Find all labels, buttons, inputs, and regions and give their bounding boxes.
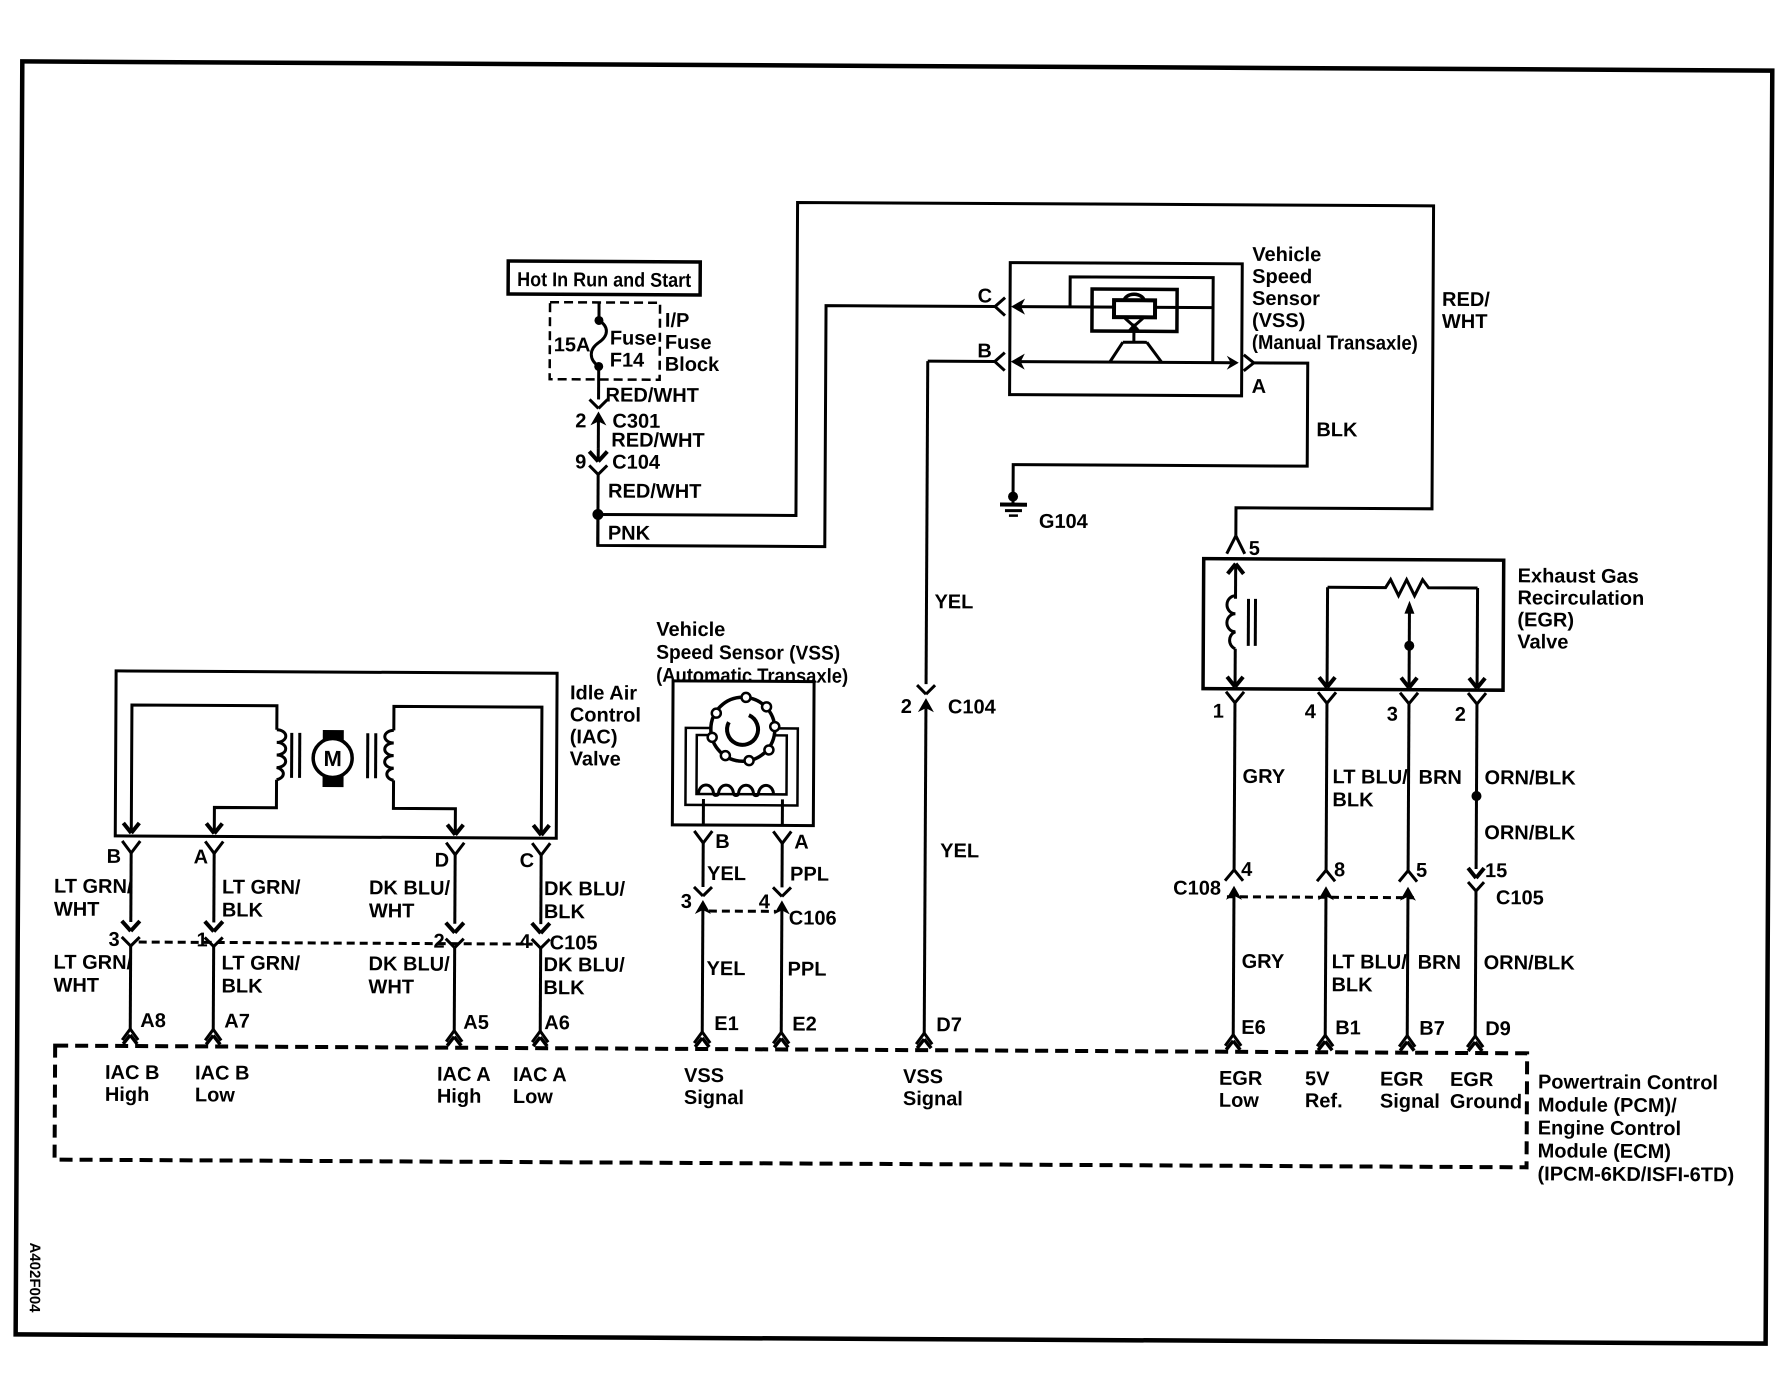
svg-text:BLK: BLK: [222, 899, 264, 921]
svg-text:3: 3: [681, 891, 692, 913]
IAC pin D: [435, 843, 465, 872]
wire PNK junction to VSS pin C: [598, 304, 995, 547]
wire DK BLU/BLK IAC C to C105: [541, 855, 626, 924]
PCM label VSS Signal (D7): [903, 1066, 963, 1110]
svg-text:DK BLU/: DK BLU/: [369, 953, 451, 975]
svg-text:1: 1: [197, 929, 208, 951]
svg-text:YEL: YEL: [707, 958, 746, 980]
svg-text:2: 2: [434, 931, 445, 953]
connector C104 pin 9: [575, 448, 661, 474]
svg-text:BRN: BRN: [1418, 952, 1461, 974]
figure code A402F004: [26, 1242, 43, 1313]
wire LT GRN/BLK IAC A to C105: [214, 853, 301, 922]
svg-text:DK BLU/: DK BLU/: [544, 954, 626, 976]
VSS auto pin B: [694, 831, 730, 853]
PCM label IAC A Low: [513, 1064, 567, 1108]
svg-text:5: 5: [1416, 860, 1427, 882]
VSS auto pickup coil: [698, 785, 782, 825]
svg-text:RED/WHT: RED/WHT: [608, 480, 701, 502]
connector C106 pin 4: [759, 887, 837, 929]
svg-text:Low: Low: [195, 1084, 236, 1106]
wire BLK pin A to ground: [1013, 362, 1358, 497]
svg-text:3: 3: [1387, 704, 1398, 726]
svg-text:Valve: Valve: [570, 748, 621, 770]
PCM pin E2 entry: [773, 1032, 789, 1047]
svg-text:LT BLU/: LT BLU/: [1332, 951, 1408, 973]
svg-text:Ref.: Ref.: [1305, 1090, 1343, 1112]
svg-text:9: 9: [575, 451, 586, 473]
svg-text:A: A: [1252, 376, 1267, 398]
svg-text:EGR: EGR: [1450, 1069, 1494, 1091]
connector C105 pin 4: [520, 923, 598, 954]
C106 dashed connector line: [709, 910, 776, 913]
wire YEL C106 to PCM E1: [702, 910, 746, 1035]
svg-text:BRN: BRN: [1419, 767, 1462, 789]
svg-text:C105: C105: [550, 932, 598, 954]
svg-text:4: 4: [1305, 701, 1317, 723]
IAC coil A (right winding): [367, 706, 550, 835]
svg-text:ORN/BLK: ORN/BLK: [1485, 767, 1577, 789]
svg-text:(Manual Transaxle): (Manual Transaxle): [1252, 332, 1418, 355]
wire RED/WHT junction to EGR pin 5: [598, 201, 1491, 537]
svg-text:E6: E6: [1241, 1017, 1266, 1039]
svg-text:B1: B1: [1335, 1017, 1361, 1039]
VSS manual sensor body: [1092, 289, 1177, 362]
VSS auto reluctor wheel: [708, 693, 780, 766]
svg-text:Powertrain Control: Powertrain Control: [1538, 1071, 1718, 1094]
VSS manual inner wire loop: [1070, 277, 1213, 363]
svg-text:8: 8: [1334, 859, 1345, 881]
svg-text:5V: 5V: [1305, 1068, 1330, 1090]
svg-text:M: M: [323, 746, 341, 771]
svg-text:LT GRN/: LT GRN/: [222, 876, 301, 898]
svg-text:4: 4: [1241, 859, 1253, 881]
exhaust gas recirculation EGR valve: [1203, 559, 1644, 691]
connector C105 pin 2: [434, 923, 464, 953]
ground G104: [1000, 492, 1089, 533]
PCM pin B1 entry: [1317, 1035, 1333, 1050]
C108 dashed connector line: [1227, 895, 1414, 899]
PCM label EGR Ground: [1450, 1069, 1522, 1113]
svg-text:RED/: RED/: [1442, 289, 1490, 311]
svg-text:(IAC): (IAC): [570, 726, 618, 748]
connector C301 pin 2: [575, 399, 660, 448]
svg-text:BLK: BLK: [544, 901, 586, 923]
svg-text:Block: Block: [665, 354, 720, 376]
svg-text:B: B: [977, 340, 992, 362]
EGR valve connector pin 5: [1227, 536, 1260, 599]
svg-text:C104: C104: [612, 452, 661, 474]
svg-text:RED/WHT: RED/WHT: [606, 384, 699, 406]
EGR sensor wiper: [1401, 601, 1417, 688]
wire LT GRN/WHT IAC B to C105: [54, 853, 133, 922]
svg-text:Signal: Signal: [903, 1088, 963, 1110]
svg-text:Sensor: Sensor: [1252, 288, 1320, 310]
VSS manual pin B: [977, 340, 1234, 371]
PCM label IAC A High: [437, 1064, 491, 1108]
PCM pin D9 entry: [1467, 1036, 1483, 1051]
EGR solenoid coil: [1227, 596, 1256, 687]
svg-text:15: 15: [1485, 860, 1507, 882]
PCM label EGR Low: [1219, 1068, 1263, 1112]
PCM pin B7 entry: [1399, 1036, 1415, 1051]
svg-text:LT BLU/: LT BLU/: [1333, 766, 1409, 788]
IAC pin A: [194, 841, 224, 868]
svg-text:(IPCM-6KD/ISFI-6TD): (IPCM-6KD/ISFI-6TD): [1537, 1163, 1734, 1186]
IAC motor M: [313, 730, 352, 787]
svg-text:GRY: GRY: [1243, 766, 1286, 788]
svg-text:(Automatic Transaxle): (Automatic Transaxle): [656, 665, 848, 688]
wire RED/WHT C104 to junction: [598, 474, 702, 546]
EGR pin 4: [1305, 692, 1336, 723]
svg-text:ORN/BLK: ORN/BLK: [1484, 952, 1576, 974]
svg-text:BLK: BLK: [1316, 419, 1358, 441]
svg-text:Exhaust Gas: Exhaust Gas: [1518, 565, 1639, 588]
wire YEL VSS B to C106: [703, 843, 746, 887]
svg-text:IAC A: IAC A: [513, 1064, 567, 1086]
connector C108 pin 8: [1317, 859, 1345, 900]
junction node: [592, 509, 603, 520]
svg-text:WHT: WHT: [368, 976, 414, 998]
svg-text:IAC B: IAC B: [195, 1062, 250, 1084]
svg-text:C106: C106: [789, 907, 837, 929]
svg-text:LT GRN/: LT GRN/: [222, 952, 301, 974]
connector C108 pin 4: [1173, 858, 1253, 899]
VSS manual pin C: [978, 285, 1214, 316]
svg-text:Valve: Valve: [1517, 631, 1568, 653]
PCM pin A5 entry: [446, 1031, 462, 1046]
svg-text:Control: Control: [570, 704, 641, 726]
vehicle speed sensor VSS (automatic transaxle): [655, 619, 848, 826]
VSS auto pin A: [773, 831, 809, 853]
svg-text:E2: E2: [792, 1013, 817, 1035]
PCM label 5V Ref: [1305, 1068, 1343, 1112]
svg-text:B7: B7: [1419, 1018, 1445, 1040]
svg-text:2: 2: [901, 696, 912, 718]
connector C105 pin 15: [1468, 860, 1544, 909]
powertrain control module PCM/ECM (dashed box): [54, 1046, 1734, 1187]
svg-text:LT GRN/: LT GRN/: [54, 876, 133, 898]
connector C104 pin 2: [901, 685, 997, 719]
PCM pin D7 entry: [916, 1033, 932, 1048]
connector C108 pin 5: [1399, 860, 1427, 901]
svg-text:GRY: GRY: [1242, 951, 1285, 973]
svg-text:Low: Low: [513, 1086, 554, 1108]
svg-text:High: High: [437, 1086, 482, 1108]
wire PPL C106 to PCM E2: [781, 910, 827, 1035]
svg-text:YEL: YEL: [934, 591, 973, 613]
svg-text:C: C: [520, 850, 535, 872]
svg-text:DK BLU/: DK BLU/: [544, 878, 626, 900]
wire LT BLU/BLK EGR 4 to C108: [1326, 703, 1408, 870]
svg-text:3: 3: [109, 929, 120, 951]
PCM pin A6 entry: [532, 1031, 548, 1046]
svg-text:I/P: I/P: [665, 310, 690, 332]
EGR position sensor (resistor): [1319, 579, 1486, 688]
wire LT GRN/WHT C105 to PCM A8: [53, 946, 166, 1033]
svg-text:Vehicle: Vehicle: [656, 619, 725, 641]
wire DK BLU/WHT C105 to PCM A5: [368, 947, 489, 1034]
I/P fuse block (dashed): [550, 302, 721, 380]
svg-text:BLK: BLK: [543, 977, 585, 999]
svg-text:Fuse: Fuse: [665, 332, 712, 354]
idle air control IAC valve: [115, 671, 641, 839]
wire RED/WHT fuse to C301: [606, 384, 699, 406]
svg-text:A: A: [194, 846, 209, 868]
IAC coil B (left winding): [123, 705, 300, 834]
svg-text:D9: D9: [1485, 1018, 1511, 1040]
C105 dashed connector line: [139, 942, 533, 944]
svg-text:Idle Air: Idle Air: [570, 682, 637, 704]
svg-text:E1: E1: [714, 1013, 739, 1035]
svg-text:Ground: Ground: [1450, 1091, 1522, 1113]
EGR pin 1: [1213, 692, 1244, 723]
vehicle speed sensor VSS (manual transaxle): [1010, 243, 1419, 397]
svg-text:G104: G104: [1039, 511, 1089, 533]
svg-text:Low: Low: [1219, 1090, 1260, 1112]
svg-text:A5: A5: [463, 1012, 489, 1034]
wire ORN/BLK EGR 2 to C105: [1471, 704, 1577, 870]
svg-text:F14: F14: [610, 350, 645, 372]
IAC pin B: [107, 841, 141, 868]
power tag: Hot In Run and Start: [508, 261, 700, 295]
svg-text:(VSS): (VSS): [1252, 310, 1305, 332]
IAC pin C: [520, 843, 551, 872]
svg-text:2: 2: [575, 410, 586, 432]
svg-text:WHT: WHT: [369, 900, 415, 922]
wire RED/WHT C301 to C104: [611, 430, 704, 452]
wire DK BLU/WHT IAC D to C105: [369, 854, 455, 923]
svg-text:Module (PCM)/: Module (PCM)/: [1538, 1094, 1677, 1117]
svg-text:PPL: PPL: [790, 863, 829, 885]
svg-text:15A: 15A: [554, 334, 591, 356]
svg-text:C104: C104: [948, 696, 997, 718]
svg-text:Recirculation: Recirculation: [1517, 587, 1644, 610]
EGR pin 3: [1387, 693, 1418, 726]
PCM pin E6 entry: [1225, 1035, 1241, 1050]
wire BRN C108 to PCM B7: [1407, 897, 1461, 1040]
svg-text:BLK: BLK: [1331, 974, 1373, 996]
svg-text:WHT: WHT: [1442, 311, 1488, 333]
svg-text:A8: A8: [140, 1010, 166, 1032]
svg-text:2: 2: [1455, 704, 1466, 726]
svg-text:DK BLU/: DK BLU/: [369, 877, 451, 899]
svg-text:Fuse: Fuse: [610, 328, 657, 350]
wire PPL VSS A to C106: [782, 843, 829, 887]
connector C105 pin 1: [197, 921, 223, 951]
svg-text:Engine Control: Engine Control: [1538, 1117, 1681, 1140]
svg-text:C108: C108: [1173, 877, 1221, 899]
svg-text:EGR: EGR: [1219, 1068, 1263, 1090]
svg-text:Vehicle: Vehicle: [1252, 244, 1321, 266]
PCM label VSS Signal (E1/E2): [684, 1065, 744, 1109]
wire GRY EGR 1 to C108: [1234, 703, 1286, 870]
svg-text:B: B: [107, 846, 122, 868]
wire YEL VSS manual B to C104: [926, 361, 995, 684]
svg-text:BLK: BLK: [221, 975, 263, 997]
PCM label EGR Signal: [1380, 1069, 1440, 1113]
VSS manual pin A: [1227, 355, 1267, 398]
svg-text:A: A: [794, 831, 809, 853]
wire DK BLU/BLK C105 to PCM A6: [540, 948, 625, 1034]
wire GRY C108 to PCM E6: [1233, 896, 1285, 1039]
svg-text:VSS: VSS: [903, 1066, 943, 1088]
svg-text:WHT: WHT: [53, 975, 99, 997]
svg-text:WHT: WHT: [54, 899, 100, 921]
svg-text:Signal: Signal: [684, 1087, 744, 1109]
svg-text:YEL: YEL: [940, 840, 979, 862]
svg-text:Hot In Run and Start: Hot In Run and Start: [517, 269, 691, 292]
connector C105 pin 3: [109, 921, 140, 951]
svg-text:IAC A: IAC A: [437, 1064, 491, 1086]
wire ORN/BLK C105 to PCM D9: [1475, 891, 1575, 1041]
fuse F14 15A: [554, 302, 657, 400]
svg-text:EGR: EGR: [1380, 1069, 1424, 1091]
svg-text:1: 1: [1213, 701, 1224, 723]
svg-text:PPL: PPL: [788, 958, 827, 980]
svg-text:ORN/BLK: ORN/BLK: [1484, 822, 1576, 844]
svg-text:High: High: [105, 1084, 150, 1106]
svg-text:C: C: [978, 285, 993, 307]
svg-text:D7: D7: [936, 1014, 962, 1036]
svg-text:LT GRN/: LT GRN/: [54, 952, 133, 974]
svg-text:Speed: Speed: [1252, 266, 1312, 288]
svg-text:Signal: Signal: [1380, 1091, 1440, 1113]
PCM pin A8 entry: [122, 1029, 138, 1044]
connector C106 pin 3: [681, 887, 712, 914]
svg-text:(EGR): (EGR): [1517, 609, 1574, 631]
EGR pin 2: [1455, 693, 1486, 726]
PCM pin E1 entry: [694, 1032, 710, 1047]
wire LT BLU/BLK C108 to PCM B1: [1325, 896, 1407, 1039]
wire BRN EGR 3 to C108: [1408, 704, 1462, 871]
wire YEL C104 to PCM D7: [924, 708, 980, 1036]
svg-text:Module (ECM): Module (ECM): [1538, 1140, 1671, 1163]
svg-text:YEL: YEL: [707, 863, 746, 885]
PCM label IAC B High: [105, 1062, 160, 1106]
svg-text:RED/WHT: RED/WHT: [611, 430, 704, 452]
PCM pin A7 entry: [205, 1029, 221, 1044]
wire LT GRN/BLK C105 to PCM A7: [213, 946, 300, 1032]
svg-text:D: D: [435, 850, 450, 872]
svg-text:C105: C105: [1496, 887, 1544, 909]
svg-text:VSS: VSS: [684, 1065, 724, 1087]
svg-text:A7: A7: [224, 1010, 250, 1032]
svg-text:A402F004: A402F004: [26, 1242, 43, 1313]
svg-text:4: 4: [520, 931, 532, 953]
svg-text:IAC B: IAC B: [105, 1062, 160, 1084]
svg-text:PNK: PNK: [608, 522, 651, 544]
svg-text:A6: A6: [544, 1012, 570, 1034]
svg-text:BLK: BLK: [1332, 789, 1374, 811]
PCM label IAC B Low: [195, 1062, 250, 1106]
svg-text:B: B: [715, 831, 730, 853]
svg-text:Speed Sensor (VSS): Speed Sensor (VSS): [656, 642, 840, 665]
svg-text:5: 5: [1249, 538, 1260, 560]
